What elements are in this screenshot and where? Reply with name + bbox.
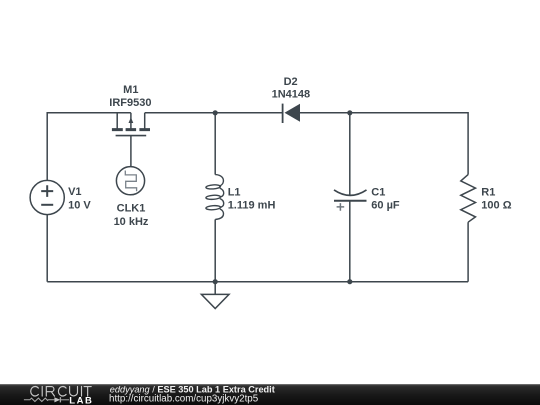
CircuitLab logo wordmark LAB bbox=[69, 396, 93, 405]
capacitor C1 (polarized) bbox=[334, 190, 367, 211]
wire R1 bottom to bottom rail bbox=[467, 222, 469, 282]
wire from V1 plus terminal up and along top-left rail bbox=[47, 113, 131, 181]
wire M1 drain to diode cathode bbox=[145, 112, 283, 114]
svg-text:IRF9530: IRF9530 bbox=[109, 97, 151, 109]
wire C1 top node down to capacitor bbox=[349, 113, 351, 195]
drain stub bbox=[144, 113, 146, 129]
label C1 bbox=[371, 186, 400, 211]
voltage source V1 bbox=[30, 180, 64, 214]
ground bbox=[201, 282, 229, 309]
svg-text:10 V: 10 V bbox=[68, 200, 91, 212]
svg-text:LAB: LAB bbox=[69, 396, 93, 405]
svg-text:CLK1: CLK1 bbox=[117, 203, 146, 215]
CircuitLab logo mini schematic (resistor + diode) bbox=[24, 397, 69, 402]
svg-text:1.119 mH: 1.119 mH bbox=[228, 199, 276, 211]
svg-text:C1: C1 bbox=[371, 186, 385, 198]
inductor L1 bbox=[206, 175, 224, 220]
label M1 bbox=[109, 84, 151, 109]
wire diode anode to top-right corner and down to R1 bbox=[300, 113, 468, 175]
svg-text:60 µF: 60 µF bbox=[371, 199, 400, 211]
node at C1 top bbox=[347, 110, 352, 115]
cathode bar bbox=[282, 104, 284, 123]
footer title text bbox=[110, 385, 275, 395]
node at C1 bottom bbox=[347, 279, 352, 284]
wire gate to CLK1 bbox=[130, 136, 132, 167]
label L1 bbox=[228, 187, 276, 212]
wire L1 bottom to bottom rail bbox=[214, 219, 216, 281]
source stub bbox=[116, 113, 118, 129]
gate plate bbox=[116, 135, 147, 137]
svg-text:10 kHz: 10 kHz bbox=[114, 216, 149, 228]
footer bar bbox=[0, 384, 540, 405]
wire from V1 minus terminal down to bottom rail bbox=[46, 215, 48, 282]
body arrowhead bbox=[129, 117, 134, 123]
label CLK1 bbox=[114, 203, 149, 228]
wire C1 bottom to bottom rail bbox=[349, 201, 351, 282]
svg-text:V1: V1 bbox=[68, 186, 81, 198]
CircuitLab logo wordmark CIRCUIT (thin stroked letters) bbox=[31, 387, 91, 397]
svg-text:M1: M1 bbox=[123, 84, 138, 96]
svg-text:100 Ω: 100 Ω bbox=[481, 199, 511, 211]
wire top node to L1 bbox=[214, 113, 216, 175]
label R1 bbox=[481, 186, 511, 211]
svg-text:L1: L1 bbox=[228, 187, 241, 199]
svg-text:D2: D2 bbox=[284, 76, 298, 88]
node at L1 top bbox=[213, 110, 218, 115]
svg-text:1N4148: 1N4148 bbox=[272, 88, 311, 100]
plus polarity mark bbox=[337, 203, 345, 211]
clock source CLK1 bbox=[116, 167, 144, 195]
node at L1 bottom / ground bbox=[213, 279, 218, 284]
resistor R1 zigzag bbox=[461, 175, 476, 223]
svg-text:R1: R1 bbox=[481, 186, 495, 198]
anode triangle bbox=[285, 104, 301, 122]
transistor M1 (PMOS IRF9530) bbox=[112, 113, 150, 136]
footer url text bbox=[109, 394, 259, 405]
label V1 bbox=[68, 186, 91, 211]
straight plate bbox=[334, 200, 367, 202]
svg-text:http://circuitlab.com/cup3yjkv: http://circuitlab.com/cup3yjkvy2tp5 bbox=[109, 394, 259, 405]
diode D2 (1N4148, pointing left) bbox=[283, 104, 300, 123]
bottom rail wire bbox=[47, 281, 468, 283]
channel bars bbox=[112, 128, 150, 131]
body arrow wire bbox=[130, 113, 132, 129]
label D2 bbox=[272, 76, 311, 101]
curved plate bbox=[334, 190, 367, 195]
